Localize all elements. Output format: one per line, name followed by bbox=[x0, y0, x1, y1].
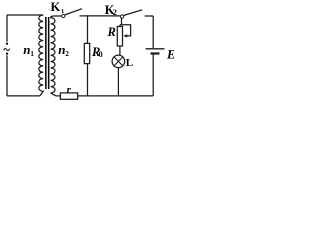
svg-text:1: 1 bbox=[61, 8, 64, 15]
svg-text:2: 2 bbox=[113, 8, 117, 17]
svg-text:2: 2 bbox=[65, 50, 69, 58]
svg-text:1: 1 bbox=[30, 50, 34, 58]
svg-text:0: 0 bbox=[99, 50, 103, 59]
svg-text:n: n bbox=[23, 42, 30, 57]
svg-text:r: r bbox=[67, 84, 72, 96]
svg-text:R: R bbox=[107, 25, 116, 39]
svg-text:K: K bbox=[51, 0, 61, 14]
svg-text:E: E bbox=[166, 48, 174, 62]
svg-text:L: L bbox=[126, 57, 133, 69]
